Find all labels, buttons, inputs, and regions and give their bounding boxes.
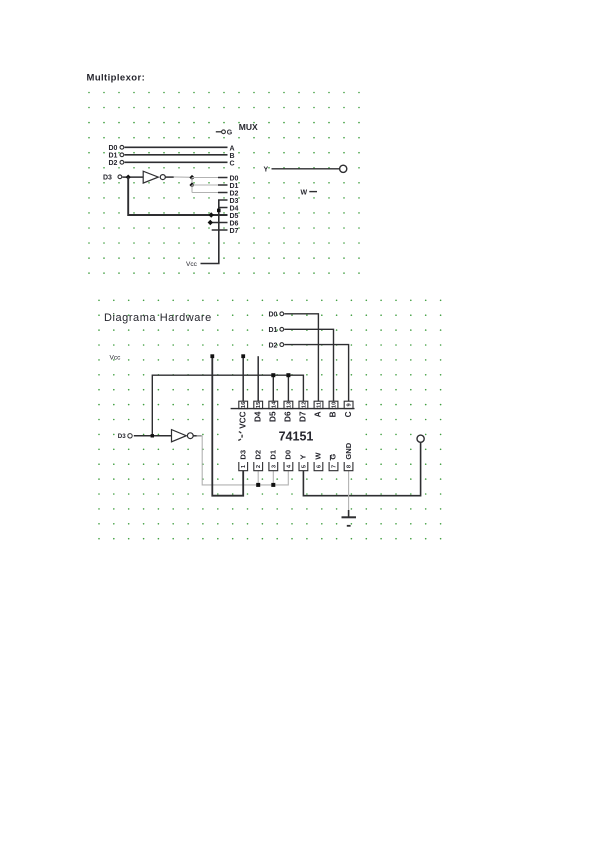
pin 2 box (bottom): [254, 462, 263, 471]
pin 3 label D1: [269, 449, 278, 459]
pin 10 box (top): [329, 401, 338, 408]
svg-text:D2: D2: [269, 342, 278, 349]
junction at D0 branch: [189, 175, 194, 180]
pin 11 box (top): [314, 401, 323, 409]
svg-text:D2: D2: [230, 190, 239, 197]
svg-text:D1: D1: [230, 183, 239, 190]
pin 7 label G: [329, 454, 338, 461]
pin D6 stub: [210, 222, 227, 224]
svg-text:D0: D0: [284, 450, 293, 460]
svg-text:10: 10: [332, 402, 338, 408]
svg-text:7: 7: [332, 465, 338, 468]
wire branch down to D1: [191, 178, 193, 186]
svg-text:2: 2: [256, 465, 262, 468]
pin 1 box (bottom): [239, 462, 248, 471]
pin D4 label: [230, 205, 239, 212]
pin B label: [230, 153, 235, 160]
wire D2 to pin 9 (C): [284, 345, 348, 402]
wire U1 output: [165, 176, 192, 178]
svg-text:D6: D6: [284, 411, 293, 422]
wire pin 3 (D1) down: [272, 471, 274, 485]
junction at pin 14: [271, 373, 275, 377]
svg-text:D5: D5: [230, 213, 239, 220]
svg-text:D6: D6: [230, 220, 239, 227]
wire D0 to pin 11 (A): [284, 314, 318, 401]
node D0 input terminal: [109, 145, 124, 152]
svg-text:D4: D4: [253, 411, 262, 422]
pin 5 box (bottom): [299, 462, 308, 471]
wire branch down to D2: [192, 185, 218, 193]
IC U3 name 74151: [279, 430, 314, 444]
junction on D3 wire: [126, 175, 131, 180]
svg-text:D7: D7: [230, 228, 239, 235]
pin 14 label D5: [269, 411, 278, 422]
Vcc junction dot pin 16: [241, 354, 245, 358]
pin 8 label GND: [344, 442, 353, 459]
junction at pin 13: [286, 373, 290, 377]
pin Y output wire: [264, 166, 340, 173]
Vcc label (diagram 1): [186, 261, 198, 268]
pin 13 box (top): [284, 401, 293, 409]
svg-text:W: W: [314, 452, 323, 460]
pin 12 label D7: [299, 411, 308, 422]
wire pin 5 (Y) to output terminal: [303, 442, 420, 495]
pin 12 box (top): [299, 401, 308, 408]
node D1 input terminal: [109, 153, 124, 160]
pin 1 label D3: [238, 450, 247, 460]
junction on D6 stub: [208, 220, 213, 225]
svg-text:GND: GND: [344, 442, 353, 459]
pin 4 box (bottom): [284, 462, 293, 471]
pin 9 box (top): [344, 401, 353, 408]
svg-text:A: A: [314, 411, 323, 417]
svg-text:D5: D5: [269, 411, 278, 422]
svg-text:Multiplexor:: Multiplexor:: [87, 73, 146, 84]
pin 13 label D6: [284, 411, 293, 422]
title: Diagrama Hardware: [104, 312, 212, 324]
svg-text:Diagrama Hardware: Diagrama Hardware: [104, 312, 212, 324]
svg-text:11: 11: [316, 401, 322, 408]
pin D4 stub: [219, 207, 228, 209]
svg-text:D3: D3: [230, 198, 239, 205]
pin 5 label Y: [299, 455, 308, 460]
pin A label: [230, 145, 235, 152]
MUX label: [239, 122, 258, 132]
svg-text:Vcc: Vcc: [186, 261, 198, 268]
pin G (enable, active low): [216, 130, 233, 137]
pin 16 box (top): [239, 401, 248, 409]
svg-text:C: C: [344, 411, 353, 417]
pin 16 label VCC: [238, 411, 247, 428]
wire Vcc to pin 16: [242, 356, 244, 401]
junction at pin 2: [256, 483, 260, 487]
svg-text:MUX: MUX: [239, 122, 258, 132]
Vcc junction dot left: [210, 354, 214, 358]
vertical bus D3-Vcc: [201, 200, 228, 264]
svg-text:C: C: [230, 160, 235, 167]
svg-text:Y: Y: [264, 166, 269, 173]
pin C label: [230, 160, 235, 167]
pin 15 box (top): [254, 401, 263, 409]
wire D3 to inverter U1: [122, 176, 143, 178]
junction on bus at D4: [217, 209, 221, 213]
node D3 input terminal: [103, 175, 122, 182]
pin 3 box (bottom): [269, 462, 278, 471]
svg-text:12: 12: [301, 402, 307, 408]
wire D0 to pin A: [125, 146, 228, 148]
wire pin 15 (D4) up: [257, 356, 259, 401]
pin 2 label D2: [253, 450, 262, 460]
pin 6 box (bottom): [314, 462, 323, 471]
svg-text:G: G: [227, 130, 233, 137]
svg-text:D4: D4: [230, 205, 239, 212]
svg-text:D1: D1: [269, 449, 278, 459]
pin 4 label D0: [284, 450, 293, 460]
wire pin 2 (D2) down: [257, 471, 259, 485]
node D2 source terminal: [269, 342, 284, 349]
svg-text:D0: D0: [230, 175, 239, 182]
wire D3 branch to pins 14,13,12: [152, 375, 303, 436]
inverter U1 (NOT gate): [143, 171, 165, 183]
pin D1 label: [230, 183, 239, 190]
pin D2 stub: [218, 192, 228, 194]
svg-text:14: 14: [271, 401, 277, 408]
svg-text:D3: D3: [103, 175, 112, 182]
pin 11 label A: [314, 411, 323, 417]
node D3 source terminal: [118, 433, 132, 440]
svg-text:W: W: [301, 189, 308, 196]
IC U3 74151 top edge: [231, 408, 355, 410]
junction on D3 wire (diagram 2): [151, 434, 154, 437]
wire Vcc rail to pin 1 (D3): [212, 356, 243, 496]
pin 6 label W: [314, 452, 323, 460]
Vcc net label (diagram 2): [110, 355, 122, 362]
svg-text:D1: D1: [269, 327, 278, 334]
wire to pin D1: [192, 184, 218, 186]
svg-text:D2: D2: [253, 450, 262, 460]
svg-text:VCC: VCC: [238, 411, 247, 428]
wire pin 14 (D5) up: [272, 375, 274, 401]
node D2 input terminal: [109, 160, 124, 167]
pin 7 box (bottom): [329, 462, 338, 471]
svg-text:16: 16: [241, 401, 247, 408]
svg-text:D1: D1: [109, 153, 118, 160]
pin D7 label: [230, 228, 239, 235]
wire U2 output to pin 4 (D0): [193, 436, 288, 485]
svg-text:B: B: [230, 153, 235, 160]
pin 9 label C: [344, 411, 353, 417]
svg-text:D3: D3: [238, 450, 247, 460]
pin D5 label: [230, 213, 239, 220]
svg-text:D2: D2: [109, 160, 118, 167]
pin D0 label: [230, 175, 239, 182]
wire D2 to pin C: [125, 161, 228, 163]
junction on D5 wire: [209, 212, 214, 217]
pin D1 stub: [218, 184, 228, 186]
IC U3 notch: [237, 432, 243, 441]
pin D6 label: [230, 220, 239, 227]
svg-text:D7: D7: [299, 411, 308, 422]
wire to pin D0: [192, 177, 218, 179]
svg-text:15: 15: [256, 401, 262, 408]
wire pin 13 (D6) up: [287, 375, 289, 401]
svg-text:13: 13: [286, 401, 292, 408]
junction at pin 3: [271, 483, 275, 487]
svg-text:D0: D0: [269, 312, 278, 319]
title: Multiplexor: [87, 73, 146, 84]
pin D0 stub: [218, 177, 228, 179]
svg-text:A: A: [230, 145, 235, 152]
pin 8 box (bottom): [344, 462, 353, 471]
svg-text:D3: D3: [118, 433, 126, 440]
svg-text:D0: D0: [109, 145, 118, 152]
svg-text:Vcc: Vcc: [110, 355, 122, 362]
wire D1 to pin B: [125, 154, 228, 156]
node Y output terminal (diagram 2): [417, 435, 424, 442]
pin D3 label: [230, 198, 239, 205]
svg-text:B: B: [329, 411, 338, 417]
node D1 source terminal: [269, 327, 284, 334]
inverter U2 (NOT gate): [172, 430, 194, 442]
ground symbol: [342, 510, 357, 526]
junction at D1 branch: [189, 182, 194, 187]
pin 14 box (top): [269, 401, 278, 409]
wire D3 down to pin D5: [128, 177, 227, 215]
node D0 source terminal: [269, 312, 284, 319]
wire D1 to pin 10 (B): [284, 329, 333, 401]
pin 15 label D4: [253, 411, 262, 422]
node Y output terminal: [340, 165, 347, 172]
pin W stub: [301, 189, 318, 196]
svg-text:74151: 74151: [279, 430, 314, 444]
pin 10 label B: [329, 411, 338, 417]
pin D7 stub: [212, 229, 228, 231]
pin D2 label: [230, 190, 239, 197]
wire D3 to inverter U2: [134, 435, 172, 437]
svg-text:Y: Y: [299, 455, 308, 460]
wire pin 8 (GND) down: [348, 471, 350, 510]
